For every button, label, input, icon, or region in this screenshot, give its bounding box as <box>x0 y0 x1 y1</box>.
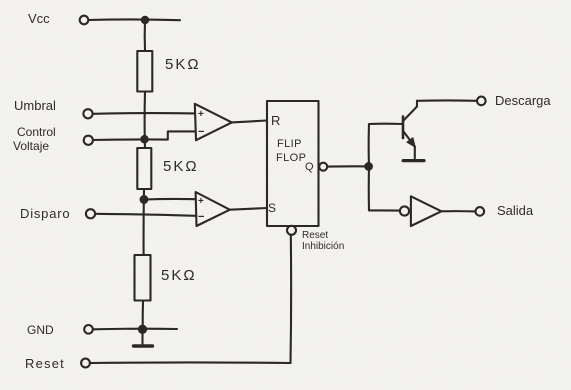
reset inhibit bubble <box>287 226 296 235</box>
wire Disparo to comparator2 minus <box>95 214 196 216</box>
terminal GND <box>84 325 93 334</box>
inverter U2 <box>411 196 442 226</box>
svg-text:R: R <box>271 113 280 128</box>
svg-text:5KΩ: 5KΩ <box>161 267 197 284</box>
terminal Descarga <box>477 97 486 106</box>
inverter input bubble <box>400 206 409 215</box>
svg-text:−: − <box>198 211 204 223</box>
node control voltage <box>141 136 147 142</box>
terminal Salida <box>476 207 485 216</box>
wire comparator1 output to R <box>232 121 267 123</box>
wire comparator2 output to S <box>230 208 267 210</box>
svg-text:Reset: Reset <box>302 230 328 241</box>
ground symbol <box>141 329 143 344</box>
wire node to inverter <box>369 167 400 211</box>
svg-text:FLOP: FLOP <box>276 152 306 164</box>
junction Vcc rail <box>142 17 148 23</box>
ground bar transistor <box>403 159 424 162</box>
Q output bubble <box>319 163 327 171</box>
terminal Vcc <box>80 16 89 25</box>
wire Reset up to inhibit bubble <box>289 235 292 363</box>
wire R2 to trigger node <box>143 189 146 255</box>
terminal Disparo <box>86 209 95 218</box>
resistor R2 <box>137 148 151 189</box>
svg-text:Inhibición: Inhibición <box>302 241 344 252</box>
flip-flop box U1 <box>267 101 319 226</box>
wire inverter to Salida <box>441 210 475 212</box>
svg-text:Descarga: Descarga <box>495 93 551 108</box>
transistor Q1 base bar <box>402 117 405 139</box>
resistor R3 <box>135 255 151 301</box>
svg-text:FLIP: FLIP <box>277 138 302 150</box>
wire Reset <box>90 361 291 364</box>
terminal Control Voltaje <box>84 136 93 145</box>
svg-text:5KΩ: 5KΩ <box>165 56 201 73</box>
svg-text:Voltaje: Voltaje <box>13 139 49 153</box>
wire Umbral to comparator plus <box>93 112 195 115</box>
svg-text:Salida: Salida <box>497 203 534 218</box>
wire emitter down <box>414 147 416 159</box>
svg-text:S: S <box>268 201 276 215</box>
svg-text:GND: GND <box>27 323 54 337</box>
svg-text:Control: Control <box>17 125 56 139</box>
wire trigger node to comparator2 plus <box>144 198 196 201</box>
wire R3 to GND line <box>142 301 144 330</box>
terminal Umbral <box>83 109 92 118</box>
op-amp comparator 1 <box>195 104 232 140</box>
wire Control Voltaje to comparator minus <box>93 131 195 140</box>
svg-text:+: + <box>198 196 204 207</box>
wire Vcc top <box>89 18 181 21</box>
svg-text:−: − <box>198 126 204 138</box>
terminal Reset <box>81 359 90 368</box>
svg-text:Umbral: Umbral <box>14 98 56 113</box>
resistor R1 <box>137 51 152 92</box>
transistor Q1 collector <box>404 101 418 121</box>
svg-text:Disparo: Disparo <box>20 206 70 221</box>
transistor Q1 emitter <box>404 132 415 147</box>
node Q driver <box>365 163 372 170</box>
svg-text:+: + <box>198 109 204 120</box>
wire collector to Descarga <box>417 99 477 102</box>
wire node to transistor base <box>369 124 403 167</box>
wire R1 to control node <box>144 92 146 149</box>
svg-text:Vcc: Vcc <box>28 11 50 26</box>
svg-text:Reset: Reset <box>25 356 65 371</box>
wire rail to R1 <box>144 20 146 51</box>
emitter arrowhead <box>407 138 415 147</box>
wire GND <box>93 328 177 331</box>
svg-text:5KΩ: 5KΩ <box>163 158 199 175</box>
node trigger divider <box>141 196 148 203</box>
node GND junction <box>139 326 146 333</box>
svg-text:Q: Q <box>305 161 314 173</box>
wire Q to driver node <box>327 165 369 167</box>
op-amp comparator 2 <box>196 192 230 226</box>
